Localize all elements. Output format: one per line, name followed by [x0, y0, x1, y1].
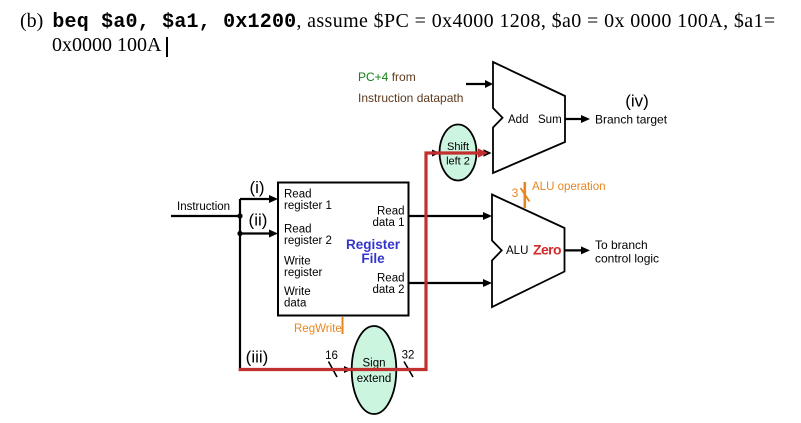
wire vertical instruction branch — [239, 199, 241, 368]
svg-text:Register: Register — [346, 237, 401, 252]
register file box U1 — [278, 183, 409, 316]
svg-text:data 1: data 1 — [373, 217, 405, 229]
svg-text:register 1: register 1 — [284, 200, 332, 212]
svg-text:To branch: To branch — [595, 238, 648, 252]
ALU U3 — [492, 195, 565, 308]
wire ALU output to branch control — [565, 246, 591, 254]
svg-text:ALU operation: ALU operation — [532, 181, 606, 193]
svg-text:(iv): (iv) — [625, 92, 649, 111]
svg-text:32: 32 — [402, 350, 415, 362]
svg-text:register: register — [284, 267, 323, 279]
svg-text:File: File — [361, 251, 385, 266]
wire red highlighted path (iii): bottom, up, into adder — [239, 148, 488, 369]
black arrowhead under red at shift input — [432, 150, 440, 157]
node junction dot 2 — [237, 231, 242, 236]
svg-text:(ii): (ii) — [249, 211, 268, 230]
svg-text:Branch target: Branch target — [595, 113, 668, 127]
svg-text:data: data — [284, 298, 307, 310]
header text line 2 — [52, 34, 161, 57]
wire adder output branch target — [565, 115, 590, 123]
svg-text:data 2: data 2 — [373, 284, 405, 296]
svg-text:Instruction: Instruction — [177, 201, 230, 213]
svg-text:Shift: Shift — [447, 141, 469, 153]
shift left 2 ellipse — [440, 125, 477, 181]
black arrowhead at adder lower input — [484, 149, 492, 157]
text cursor — [166, 37, 168, 57]
node junction dot 1 — [237, 213, 242, 218]
wire Read data 2 to ALU — [409, 279, 492, 287]
svg-text:Read: Read — [284, 224, 312, 236]
svg-text:Sum: Sum — [538, 114, 562, 126]
svg-text:16: 16 — [325, 350, 338, 362]
svg-text:left 2: left 2 — [446, 156, 470, 168]
svg-text:ALU: ALU — [506, 245, 528, 257]
svg-text:(iii): (iii) — [246, 348, 269, 367]
svg-text:control logic: control logic — [595, 252, 659, 266]
adder U2 — [493, 62, 565, 173]
svg-text:Read: Read — [377, 273, 405, 285]
wire instruction input — [171, 201, 241, 216]
svg-text:extend: extend — [357, 373, 392, 385]
wire PC+4 input to adder — [466, 80, 493, 88]
label PC+4 from Instruction datapath — [358, 70, 463, 105]
svg-text:Zero: Zero — [533, 242, 561, 258]
wire to Read register 2 — [240, 230, 278, 238]
svg-text:PC+4 from: PC+4 from — [358, 70, 416, 84]
wire ALU operation control — [521, 182, 530, 208]
header text line 1 — [20, 10, 776, 34]
svg-text:register 2: register 2 — [284, 235, 332, 247]
svg-text:Instruction datapath: Instruction datapath — [358, 91, 463, 105]
svg-text:3: 3 — [512, 186, 519, 200]
svg-text:RegWrite: RegWrite — [294, 323, 342, 335]
svg-text:Write: Write — [284, 256, 311, 268]
svg-text:Write: Write — [284, 286, 311, 298]
svg-text:Sign: Sign — [362, 358, 385, 370]
wire Read data 1 to ALU — [409, 212, 492, 220]
wire RegWrite control — [342, 317, 344, 334]
wire to Read register 1 — [240, 195, 278, 203]
svg-text:Add: Add — [508, 114, 528, 126]
sign extend ellipse — [352, 326, 397, 414]
svg-text:Read: Read — [377, 206, 405, 218]
black arrowhead under red at sign extend input — [344, 366, 352, 373]
svg-text:Read: Read — [284, 189, 312, 201]
svg-text:(i): (i) — [249, 178, 264, 197]
